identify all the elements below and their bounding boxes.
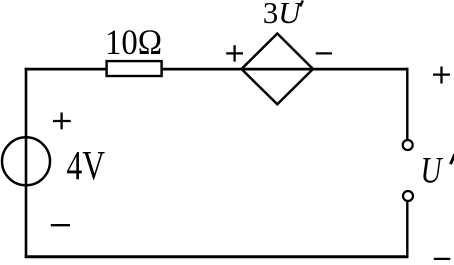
polarity − of output (clipped at bottom edge) bbox=[434, 258, 451, 261]
polarity − of dependent source bbox=[316, 52, 332, 54]
polarity + of 4V source bbox=[53, 112, 71, 129]
svg-text:4V: 4V bbox=[67, 142, 106, 188]
wire bottom bbox=[25, 255, 409, 258]
svg-text:U: U bbox=[421, 150, 444, 191]
wire left vertical: through 4V source bbox=[25, 68, 28, 258]
polarity + of dependent source bbox=[226, 45, 243, 61]
svg-text:3U: 3U bbox=[263, 0, 304, 30]
wire right vertical upper: top corner to upper terminal bbox=[406, 68, 408, 140]
polarity + of output bbox=[433, 67, 450, 84]
terminal lower (open circle) bbox=[403, 191, 413, 201]
resistor 10Ω body bbox=[107, 61, 162, 76]
terminal upper (open circle) bbox=[403, 140, 413, 150]
svg-text:10Ω: 10Ω bbox=[105, 22, 162, 62]
wire right vertical lower: lower terminal to bottom corner bbox=[406, 202, 408, 257]
voltage source 4V (circle) bbox=[2, 137, 50, 185]
wire top: from left corner through resistor and dependent source to right corner bbox=[25, 68, 409, 71]
polarity − of 4V source bbox=[51, 224, 70, 226]
dependent source 3U' (diamond) bbox=[242, 34, 314, 105]
